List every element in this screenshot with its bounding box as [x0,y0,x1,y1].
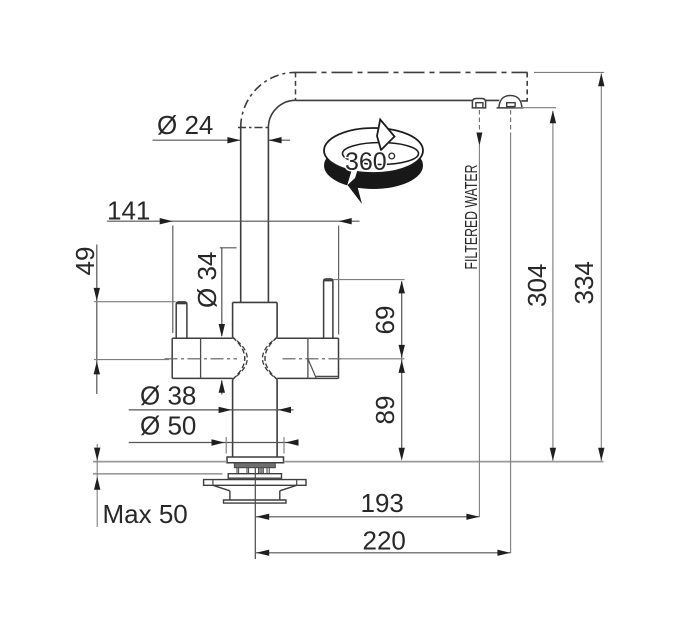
left lever handle [176,302,187,338]
riser pipe (D24) [241,128,269,303]
right valve centerline [283,358,342,360]
right valve lever skirt diagonal [308,359,339,378]
svg-text:49: 49 [70,247,100,276]
spout bottom edge [296,99,528,102]
left lever top cap [176,302,186,304]
D50 extension ticks [226,437,284,454]
body upper section [233,302,278,337]
spout bend inner arc [268,100,295,127]
base plate [227,457,284,463]
spout top edge (phantom line) [296,71,528,73]
mounting washer (hatched) [234,463,275,468]
countertop bottom line [93,473,223,475]
dimension 220 [256,552,510,554]
X junction left intersection curves [233,337,245,379]
svg-text:Max 50: Max 50 [103,499,188,529]
body lower column (D38) [233,379,278,457]
countertop deck line [93,461,604,463]
svg-text:FILTERED WATER: FILTERED WATER [461,165,481,270]
filtered water leader line [478,110,480,130]
right lever top cap [324,280,333,282]
69 extension line (right lever top) [334,279,405,281]
svg-text:141: 141 [107,196,150,226]
svg-text:220: 220 [363,526,406,556]
svg-text:89: 89 [370,396,400,425]
faucet axis leader line [254,468,256,560]
left valve cap joint [200,338,202,378]
threaded studs [237,468,269,474]
49 extension lines [94,302,176,360]
svg-text:Ø 24: Ø 24 [157,110,213,140]
left valve centerline [165,358,238,360]
svg-text:334: 334 [569,261,599,304]
dimension D24 [153,139,291,141]
right valve body [277,338,338,378]
left valve body [172,338,232,378]
dimension Max 50 [96,444,98,527]
svg-text:Ø 50: Ø 50 [140,411,196,441]
dimension 49 [96,245,98,395]
mounting flange notches [213,480,297,486]
69/89 shared extension (valve centerline) [339,358,405,360]
bracket bottom plate [224,500,287,503]
main aerator inner outlet [507,103,515,108]
mounting bracket sides [213,485,297,500]
mounting flange top [204,480,306,486]
svg-text:69: 69 [370,306,400,335]
89 arrows [399,360,405,373]
dimension 334 [600,74,602,461]
360 degree swivel icon [324,120,423,205]
filtered water nozzle [472,99,487,108]
dimension D38 [129,409,294,411]
right lever handle [324,279,333,338]
dimension 69 / 89 vertical line [401,282,403,458]
svg-text:360°: 360° [345,148,397,176]
69 arrows [399,280,405,293]
filtered water nozzle inner outlet [476,103,483,108]
304 extension line [515,107,556,109]
spout end cap dashed [526,72,528,100]
svg-text:Ø 34: Ø 34 [192,252,222,308]
bend to straight joint dashed [295,72,297,100]
svg-text:Ø 38: Ø 38 [140,381,196,411]
main aerator dome [497,96,524,108]
svg-text:304: 304 [522,264,552,307]
dimension D50 [129,442,298,444]
dimension 193 [256,516,479,518]
spout bend outer arc [241,72,296,127]
svg-text:193: 193 [361,488,404,518]
dimension 141 [107,220,360,222]
main outlet leader line [510,110,512,134]
right valve cap joint [307,338,309,378]
spout bend joint dash-dot across riser [238,127,271,129]
dimension D34 [220,248,237,395]
X junction right intersection curves [265,337,277,379]
334 extension line [534,71,604,73]
lower washer nut plate [228,474,281,479]
141 extension lines [173,226,339,335]
dimension 304 [552,111,554,461]
